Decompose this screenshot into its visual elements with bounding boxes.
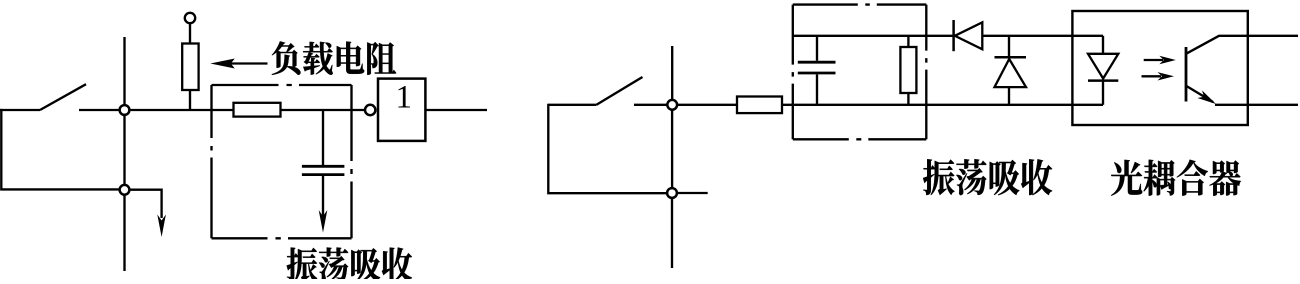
wire vertical above node J1 [123,37,125,105]
top bus wire (snubber to diode D1) [793,35,954,37]
bottom bus wire R3 through snubber to LED [782,104,1103,106]
node J1 [120,105,130,115]
node J2 [120,185,130,195]
phototransistor Q1 base bar [1185,47,1188,102]
capacitor C1 plates [302,165,345,168]
label arrow pointing to load resistor [231,62,268,64]
label 负载电阻 (load resistor) [272,41,396,74]
diode D1 cathode bar [952,20,955,51]
snubber dash-dot box (left) left edge [210,85,212,238]
snubber dash-dot box (left) right edge [350,85,352,238]
light arrow 2 (optocoupler) [1142,75,1162,77]
wire J4 to R3 [677,104,738,106]
snubber dash-dot box (left) top edge [212,84,352,86]
wire below node J2 [123,195,125,272]
snubber dash-dot box (right) right edge [925,5,927,140]
LED D3 top wire [1072,35,1103,37]
wire stub right of J5 [677,192,708,194]
snubber dash-dot box (right) top edge [793,3,927,5]
diode D1 triangle (points left) [955,22,983,49]
wire R1 to bus [189,90,191,111]
diode D2 cathode bar [995,56,1027,59]
svg-text:1: 1 [395,80,412,116]
wire gate output [425,109,487,111]
capacitor C2 plates [798,61,836,64]
main bus wire J1 to gate input node [129,109,365,111]
diode D2 bottom lead [1008,87,1010,105]
label 振荡吸收 (left snubber) [287,247,412,281]
wire stub right of J2 turning down [129,190,161,218]
wire below node J5 [671,198,673,268]
switch S1 left lead [0,109,40,111]
wire between nodes J4 J5 [671,109,673,188]
wire D1 to optocoupler [982,35,1072,37]
switch S2 right lead [634,104,667,106]
snubber dash-dot box (right) left edge [792,5,794,140]
node J4 [667,100,677,110]
resistor R4 (snubber, vertical) [900,47,916,93]
label 光耦合器 (optocoupler) [1111,160,1241,196]
snubber dash-dot box (right) bottom edge [793,138,927,140]
resistor R1 (load resistor, vertical) [182,44,198,91]
logic gate box U1 [378,79,425,141]
optocoupler box U2 [1072,11,1247,125]
emitter arrow head [1197,90,1216,104]
capacitor C1 top lead [322,110,324,165]
switch S1 blade [40,84,86,110]
phototransistor Q1 emitter [1186,86,1213,102]
wire vertical above node J4 [671,46,673,100]
right circuit: switch, snubber, diodes, optocoupler [548,5,1298,268]
node J5 [667,188,677,198]
phototransistor Q1 collector [1186,36,1298,54]
resistor R2 (snubber, horizontal) [234,103,281,117]
phototransistor Q1 emitter output wire [1215,104,1298,106]
LED D3 cathode bar [1088,79,1118,82]
wire terminal to R1 [189,24,191,45]
LED D3 bottom lead [1102,81,1104,105]
wire left return branch [1,109,120,189]
resistor R3 (series, horizontal) [737,97,782,114]
node J3 (gate input terminal) [365,105,375,115]
switch S2 left lead [548,104,596,106]
capacitor C1 bottom lead [322,176,324,218]
switch S1 right lead [79,109,120,111]
wire left return branch (right circuit) [548,104,667,194]
snubber dash-dot box (left) bottom edge [212,237,352,239]
arrow head on stub below J2 [157,215,166,238]
switch S2 blade [597,77,643,105]
diode D2 triangle (points up) [995,59,1027,87]
light arrow 1 (optocoupler) [1144,59,1163,61]
wire between nodes J1 J2 [123,115,125,186]
capacitor C2 top lead [816,36,818,61]
arrow head below C1 [319,210,328,233]
resistor R4 (snubber, vertical) leads [907,36,909,47]
diode D2 top lead [1008,36,1010,57]
left circuit: switch with snubber and logic gate [0,13,366,271]
LED D3 top lead [1102,36,1104,54]
label 振荡吸收 (right snubber) [923,159,1052,195]
capacitor C2 bottom lead [816,74,818,104]
LED D3 triangle (points down) [1088,54,1118,79]
terminal post circle [185,13,195,23]
